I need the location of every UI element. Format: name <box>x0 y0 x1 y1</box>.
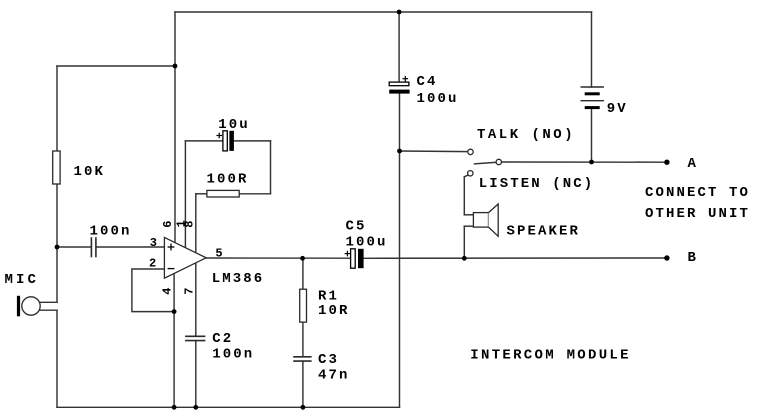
capacitor 10u polarized <box>223 131 227 151</box>
wire left branch lower <box>56 184 58 302</box>
wire 100R right lead <box>239 193 270 195</box>
wire pin 1 vertical <box>184 141 186 248</box>
svg-text:4: 4 <box>161 287 175 294</box>
wire mic ground vertical <box>56 310 58 407</box>
node pin4 ground rail junction <box>172 405 177 410</box>
node top rail junction <box>397 10 402 15</box>
battery B1 9V <box>581 87 604 109</box>
node speaker junction <box>462 256 467 261</box>
capacitor C4 100u polarized <box>389 82 409 86</box>
svg-text:LISTEN (NC): LISTEN (NC) <box>479 176 595 192</box>
wire listen vertical <box>463 177 465 215</box>
switch SW1 listen contact <box>468 171 473 176</box>
svg-text:TALK (NO): TALK (NO) <box>477 127 575 143</box>
wire mic top stub <box>40 301 57 303</box>
wire top rail <box>175 11 592 13</box>
svg-text:C2: C2 <box>212 331 233 347</box>
svg-text:8: 8 <box>183 220 197 227</box>
svg-text:100u: 100u <box>417 91 459 107</box>
node battery A junction <box>589 160 594 165</box>
svg-text:100n: 100n <box>212 346 254 362</box>
svg-text:10R: 10R <box>318 303 350 319</box>
wire speaker to B junction <box>463 226 465 258</box>
wire C4 upper lead <box>398 12 400 82</box>
resistor 10K <box>53 151 60 184</box>
svg-text:C5: C5 <box>346 218 367 234</box>
svg-text:SPEAKER: SPEAKER <box>507 224 581 240</box>
wire talk contact feed <box>400 150 468 153</box>
node C4 ground junction <box>397 149 402 154</box>
wire pin 4 vertical <box>173 274 175 408</box>
wire pin 7 to C2 <box>195 263 197 337</box>
microphone MIC <box>17 296 20 317</box>
wire mic bottom stub <box>40 309 57 311</box>
resistor 100R <box>207 190 239 197</box>
wire listen bend <box>464 175 468 177</box>
svg-text:10u: 10u <box>218 117 250 133</box>
svg-text:C3: C3 <box>318 352 339 368</box>
svg-text:LM386: LM386 <box>212 271 265 287</box>
wire cap to pin 3 <box>96 246 164 248</box>
svg-text:47n: 47n <box>318 368 350 384</box>
svg-text:C4: C4 <box>417 74 438 90</box>
svg-text:3: 3 <box>150 236 157 250</box>
wire battery bottom lead <box>591 109 593 162</box>
svg-text:100R: 100R <box>207 171 249 187</box>
svg-text:CONNECT TO: CONNECT TO <box>645 185 750 201</box>
wire left vertical V+ to pin 6 <box>174 12 176 243</box>
resistor R1 10R <box>300 289 307 322</box>
wire C5 to B <box>364 257 667 259</box>
capacitor C3 47n <box>293 357 311 361</box>
node V+ junction <box>173 64 178 69</box>
svg-text:10K: 10K <box>74 164 106 180</box>
svg-text:100u: 100u <box>346 235 388 251</box>
wire input to cap <box>57 246 91 248</box>
svg-text:MIC: MIC <box>5 272 40 288</box>
wire battery top lead <box>591 12 593 87</box>
wire switch arm <box>475 162 497 164</box>
wire speaker top stub <box>464 214 473 216</box>
capacitor 100n input <box>91 237 96 257</box>
wire amp output <box>206 257 350 259</box>
svg-text:B: B <box>688 250 699 266</box>
svg-text:7: 7 <box>183 287 197 294</box>
svg-text:5: 5 <box>215 246 222 260</box>
wire pole to A <box>502 161 667 163</box>
node C3 ground rail junction <box>301 405 306 410</box>
wire bottom ground rail <box>57 406 400 408</box>
op-amp U1 LM386 <box>164 237 206 278</box>
wire C3 to ground <box>302 361 304 407</box>
wire R1 to C3 <box>302 322 304 356</box>
wire R1 top lead <box>302 258 304 289</box>
svg-text:A: A <box>688 156 699 172</box>
wire 100R left lead <box>196 193 207 195</box>
node pin2 ground junction <box>172 309 177 314</box>
wire C4 lower lead <box>399 94 401 151</box>
wire speaker bottom stub <box>464 225 473 227</box>
wire C2 to ground <box>195 341 197 408</box>
wire ground right vertical <box>399 151 401 407</box>
node output junction <box>300 256 305 261</box>
svg-text:100n: 100n <box>90 223 132 239</box>
terminal B <box>664 255 669 260</box>
svg-text:2: 2 <box>149 256 156 270</box>
svg-text:6: 6 <box>161 220 175 227</box>
wire left branch upper <box>56 66 58 151</box>
capacitor C2 100n <box>185 336 205 340</box>
terminal A <box>664 160 669 165</box>
wire feedback top right <box>234 140 271 142</box>
switch SW1 pole contact <box>496 159 501 164</box>
wire feedback right vertical <box>270 141 272 194</box>
speaker LS1 <box>473 213 488 228</box>
wire pin 8 vertical <box>195 194 197 253</box>
node input junction <box>55 245 60 250</box>
capacitor C5 100u polarized <box>351 249 356 268</box>
wire pin 2 feedback loop <box>132 269 174 312</box>
node C2 ground rail junction <box>193 405 198 410</box>
switch SW1 talk contact <box>468 149 473 154</box>
svg-text:INTERCOM MODULE: INTERCOM MODULE <box>470 348 631 364</box>
svg-text:9V: 9V <box>607 101 628 117</box>
wire feedback top left <box>185 140 223 142</box>
svg-text:OTHER UNIT: OTHER UNIT <box>645 206 750 222</box>
wire mic feed horizontal <box>57 65 175 67</box>
